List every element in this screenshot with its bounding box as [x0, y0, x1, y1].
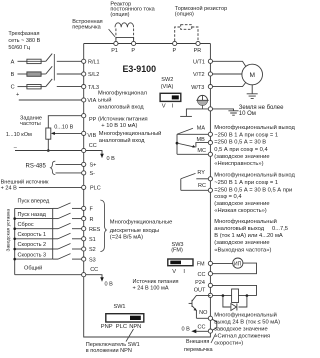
svg-text:Многофункциональный выход: Многофункциональный выход [214, 172, 295, 179]
svg-text:(заводское значение: (заводское значение [214, 154, 269, 160]
svg-text:~250 В 1 А при cosφ = 1: ~250 В 1 А при cosφ = 1 [214, 132, 278, 138]
svg-text:V: V [172, 269, 176, 275]
svg-text:V/T2: V/T2 [193, 72, 205, 78]
svg-text:(=24 В/5 мА): (=24 В/5 мА) [110, 235, 143, 241]
svg-text:cosφ = 0,4: cosφ = 0,4 [214, 194, 242, 200]
svg-text:CC: CC [198, 272, 206, 278]
motor M [242, 64, 263, 85]
terminal FM [208, 261, 212, 265]
svg-text:NPN: NPN [129, 324, 141, 330]
terminal PR [196, 41, 200, 45]
svg-text:=250 В 0,5 А = 30 В 0,5 А при: =250 В 0,5 А = 30 В 0,5 А при [214, 187, 292, 193]
svg-text:PR: PR [194, 48, 202, 54]
svg-text:Внешняя: Внешняя [186, 339, 209, 345]
terminal F [82, 206, 86, 210]
svg-text:RS-485: RS-485 [26, 164, 47, 170]
svg-text:заводское значение: заводское значение [214, 327, 267, 333]
wire U/T1 to motor [213, 61, 247, 67]
svg-text:(заводское значение: (заводское значение [214, 201, 269, 207]
wire P24 to coil loop [213, 285, 257, 295]
terminal U/T1 [208, 59, 212, 63]
svg-text:«Неисправность»): «Неисправность») [214, 161, 263, 167]
pointer to SW1 [126, 329, 134, 342]
wire C to breaker [41, 86, 46, 88]
svg-text:P: P [131, 48, 135, 54]
svg-text:S1: S1 [89, 237, 96, 243]
switch S3 [53, 258, 58, 260]
svg-text:P: P [173, 48, 177, 54]
svg-text:«Низкая скорость»): «Низкая скорость») [214, 208, 267, 214]
svg-text:Внешний источник: Внешний источник [1, 178, 49, 185]
svg-text:=250 В 0,5 А = 30 В: =250 В 0,5 А = 30 В [214, 140, 266, 146]
svg-text:+: + [16, 92, 19, 98]
terminal RC [208, 188, 212, 192]
svg-text:RC: RC [198, 183, 206, 189]
svg-text:аналоговый вход: аналоговый вход [99, 137, 145, 144]
svg-text:SW2: SW2 [161, 77, 173, 83]
svg-text:Пуск вперед: Пуск вперед [18, 199, 51, 205]
svg-text:сеть ~ 380 В: сеть ~ 380 В [8, 38, 40, 44]
SW3 slide switch [168, 259, 193, 266]
terminal S3 [82, 257, 86, 261]
svg-text:NO: NO [199, 310, 208, 316]
wire B to S/L2 [57, 73, 84, 75]
svg-text:(VIA): (VIA) [161, 84, 174, 90]
terminal VIB [82, 131, 86, 135]
svg-text:«Сигнал достижения: «Сигнал достижения [214, 334, 270, 340]
terminal P24 [208, 283, 212, 287]
svg-text:перемычка: перемычка [184, 347, 213, 353]
built-in jumper P1-P [116, 38, 134, 44]
switch RES [53, 228, 58, 230]
svg-text:E3-9100: E3-9100 [123, 64, 157, 74]
breaker blade C [46, 79, 52, 87]
relay 1 NO arm [177, 128, 193, 134]
terminal PLC [82, 185, 86, 189]
discrete inputs brace [100, 200, 106, 252]
svg-text:50/60 Гц: 50/60 Гц [8, 45, 30, 51]
terminal MB [208, 141, 212, 145]
breaker blade A [46, 54, 52, 62]
svg-text:Пуск назад: Пуск назад [18, 212, 47, 218]
svg-text:0...7,5: 0...7,5 [272, 226, 288, 232]
wire to NO [196, 317, 210, 319]
relay 2 stationary contact RY [196, 178, 210, 180]
svg-text:U/T1: U/T1 [193, 60, 205, 66]
switch F [53, 207, 58, 209]
wire meter to CC [213, 263, 257, 274]
terminal R/L1 [82, 59, 86, 63]
fuse A [27, 59, 41, 63]
svg-text:Сброс: Сброс [18, 222, 34, 228]
switch S2 [53, 248, 58, 250]
svg-text:(FM): (FM) [171, 247, 183, 253]
terminal CC (analog) [82, 148, 86, 152]
svg-text:0 В: 0 В [182, 327, 191, 333]
external jumper NO-CC [212, 319, 217, 330]
svg-text:Многофункционал: Многофункционал [98, 91, 147, 97]
svg-text:Многофункциональный выход: Многофункциональный выход [214, 124, 295, 131]
svg-text:W/T3: W/T3 [191, 85, 204, 91]
terminal S/L2 [82, 72, 86, 76]
fuse B [27, 72, 41, 76]
pot bottom wire to CC wire [47, 139, 49, 150]
svg-text:(опция): (опция) [175, 12, 194, 18]
svg-text:S2: S2 [89, 247, 96, 253]
svg-text:Многофункциональный: Многофункциональный [99, 130, 162, 137]
svg-text:+ 24 В: + 24 В [1, 185, 17, 191]
switch S1 [53, 238, 58, 240]
terminal NO [208, 316, 212, 320]
terminal MC [208, 152, 212, 156]
wire C [18, 86, 27, 88]
junction pot-CC [47, 149, 50, 152]
junction dots on common bus [13, 217, 16, 220]
svg-text:VIA: VIA [87, 98, 96, 104]
svg-text:PP: PP [89, 117, 97, 123]
wire to CC [15, 150, 84, 152]
SW2 slide switch [160, 93, 181, 101]
svg-text:S-: S- [90, 171, 96, 177]
wire A to breaker [41, 60, 46, 62]
svg-text:аналоговый вход: аналоговый вход [98, 103, 144, 110]
svg-text:+ 10 В 10 мА): + 10 В 10 мА) [101, 123, 137, 129]
svg-text:S+: S+ [90, 163, 97, 169]
discrete input selector box [15, 208, 53, 274]
terminal OUT [208, 293, 212, 297]
wire W/T3 to motor [213, 82, 247, 87]
svg-text:RES: RES [89, 227, 101, 233]
fuse C [27, 85, 41, 89]
terminal W/T3 [208, 85, 212, 89]
svg-text:в положении NPN: в положении NPN [86, 348, 132, 354]
terminal CC (output) [208, 329, 212, 333]
svg-text:В (ток 1 мА) или 4...20 мА: В (ток 1 мА) или 4...20 мА [214, 233, 283, 239]
relay 2 NO arm [181, 173, 196, 178]
earth wire to external ground [212, 109, 233, 111]
breaker linkage [53, 54, 55, 81]
PE terminal symbol [196, 95, 208, 109]
external ground symbol [228, 111, 238, 115]
switch R [53, 218, 58, 220]
terminal RY [208, 177, 212, 181]
svg-text:выход 24 В (ток ≤ 50 мА): выход 24 В (ток ≤ 50 мА) [214, 320, 280, 326]
svg-text:M: M [250, 72, 256, 79]
svg-text:Трехфазная: Трехфазная [8, 31, 39, 37]
chassis ground wire [186, 109, 210, 116]
svg-text:Скорость 2: Скорость 2 [18, 242, 47, 248]
DC reactor coil (dashed option) [115, 23, 134, 27]
svg-text:1...10 кОм: 1...10 кОм [6, 132, 32, 138]
wire A [18, 60, 27, 62]
transistor base stub [189, 302, 192, 304]
svg-text:PNP: PNP [101, 324, 113, 330]
relay 1 wire MC [177, 153, 210, 155]
relay 2 bracket [180, 179, 182, 191]
svg-text:0...10 В: 0...10 В [54, 125, 73, 131]
svg-text:A: A [11, 59, 15, 65]
output transistor [192, 295, 210, 300]
diode symbol [231, 304, 237, 311]
svg-text:Заводская уставка: Заводская уставка [5, 209, 11, 252]
terminal S2 [82, 247, 86, 251]
svg-text:MC: MC [197, 148, 206, 154]
relay 1 NC arm with arrowhead [177, 143, 194, 147]
pot top wire to PP [48, 116, 83, 128]
svg-text:скорости»): скорости») [214, 341, 243, 347]
SW1 slide switch [106, 314, 144, 322]
wire to S+ [56, 163, 84, 165]
svg-text:дискретные входы: дискретные входы [110, 228, 159, 234]
terminal P (brake) [173, 41, 177, 45]
svg-text:перемычка: перемычка [72, 25, 101, 31]
brake resistor (dashed option) [175, 27, 198, 41]
junction dots coil [222, 294, 225, 297]
pointer to jumper [109, 29, 115, 37]
terminal CC (logic) [82, 273, 86, 277]
external relay coil [232, 289, 239, 303]
svg-text:MB: MB [197, 137, 206, 143]
svg-text:(Источник питания: (Источник питания [98, 116, 148, 122]
terminal RES [82, 227, 86, 231]
terminal PP [82, 114, 86, 118]
svg-text:R: R [90, 217, 94, 223]
wire C to T/L3 [57, 86, 84, 88]
wire V/T2 to motor [213, 73, 242, 75]
motor ground [247, 85, 258, 99]
0V wire with arrow (output CC) [196, 330, 209, 332]
svg-text:Источник питания: Источник питания [133, 279, 179, 285]
relay 2 wire RC [181, 189, 211, 191]
breaker blade B [46, 66, 52, 74]
terminal S- [82, 171, 86, 175]
relay 1 wire MA [177, 133, 210, 135]
svg-text:RY: RY [197, 170, 205, 176]
chassis ground bar [180, 115, 192, 117]
svg-text:B: B [11, 72, 15, 78]
pointer to jumper [211, 334, 216, 344]
svg-text:0,5 А при cosφ = 0,4: 0,5 А при cosφ = 0,4 [214, 147, 268, 153]
terminal S+ [82, 162, 86, 166]
terminal VIA [82, 98, 86, 102]
svg-text:P1: P1 [111, 48, 118, 54]
terminal CC (FM return) [208, 272, 212, 276]
terminal T/L3 [82, 85, 86, 89]
wire A to R/L1 [57, 60, 84, 62]
svg-text:P24: P24 [195, 280, 205, 286]
terminal P (reactor) [132, 41, 136, 45]
svg-text:SW1: SW1 [114, 304, 126, 310]
svg-text:+ 24 В 100 мА: + 24 В 100 мА [133, 285, 169, 291]
svg-text:Скорость 3: Скорость 3 [18, 252, 47, 258]
wire B to breaker [41, 73, 46, 75]
wire to VIA [19, 99, 84, 101]
svg-text:(опция): (опция) [110, 12, 129, 18]
freewheel diode branch [223, 296, 247, 307]
svg-text:Многофункциональные: Многофункциональные [110, 219, 173, 225]
node on right edge (ground) [208, 107, 212, 111]
svg-text:Скорость 1: Скорость 1 [18, 232, 47, 238]
svg-text:VIB: VIB [87, 133, 96, 139]
svg-text:CC: CC [90, 267, 98, 273]
terminal S1 [82, 237, 86, 241]
svg-text:OUT: OUT [194, 287, 206, 293]
svg-text:CC: CC [89, 143, 97, 149]
svg-text:~250 В 1 А при cosφ = 1: ~250 В 1 А при cosφ = 1 [214, 180, 278, 186]
inverter block E3-9100 outline [84, 44, 211, 338]
svg-text:V: V [162, 103, 166, 109]
svg-text:FM: FM [197, 262, 205, 268]
svg-text:S3: S3 [89, 257, 96, 263]
svg-text:0 В: 0 В [105, 281, 114, 287]
svg-text:PLC: PLC [90, 186, 101, 192]
svg-text:ИП: ИП [234, 261, 242, 267]
potentiometer [46, 128, 51, 139]
svg-text:Общий: Общий [24, 264, 42, 271]
svg-text:S/L2: S/L2 [88, 72, 99, 78]
pot wiper to VIB [54, 132, 84, 134]
svg-text:R/L1: R/L1 [88, 60, 100, 66]
svg-text:CC: CC [198, 325, 206, 331]
terminal MA [208, 132, 212, 136]
RS-485 brace [50, 161, 55, 174]
meter instrument [233, 258, 243, 268]
internal 0V arrow (logic CC) [86, 275, 102, 278]
wire B [18, 73, 27, 75]
svg-text:Многофункциональный: Многофункциональный [214, 218, 277, 225]
svg-text:частоты: частоты [20, 121, 41, 127]
svg-text:(заводское значение: (заводское значение [214, 240, 269, 246]
wire to PLC [19, 186, 84, 188]
svg-text:«Выходная частота»): «Выходная частота») [214, 247, 271, 253]
terminal V/T2 [208, 72, 212, 76]
wire to S- [56, 172, 84, 174]
svg-text:PLC: PLC [116, 324, 127, 330]
internal 0V arrow (analog CC) [86, 151, 102, 155]
relay 1 wire MB [196, 143, 211, 148]
svg-text:0 В: 0 В [107, 156, 116, 162]
terminal R [82, 217, 86, 221]
svg-text:аналоговый выход: аналоговый выход [214, 225, 264, 232]
svg-text:ьный: ьный [98, 97, 112, 104]
svg-text:MA: MA [197, 126, 206, 132]
common wire to CC [15, 274, 84, 276]
relay 1 bracket [176, 134, 178, 154]
wire OUT to coil [213, 295, 257, 297]
svg-text:10 Ом: 10 Ом [239, 111, 256, 117]
svg-text:C: C [11, 85, 15, 91]
svg-text:Многофункциональный: Многофункциональный [214, 311, 277, 318]
wire FM to meter [213, 262, 233, 264]
terminal P1 [114, 41, 118, 45]
relay 1 pivot dot [176, 142, 179, 145]
